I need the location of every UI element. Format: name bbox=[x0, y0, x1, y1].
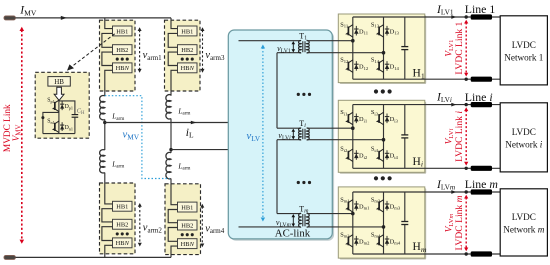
arm inductor L_arm lower-right bbox=[166, 152, 171, 178]
node LVDC link bottom junction row i bbox=[465, 167, 468, 170]
wire transformer secondary bottom to H1 bbox=[307, 52, 384, 54]
node LVDC link top junction row i bbox=[465, 103, 468, 106]
current arrow I_MV on top rail bbox=[61, 16, 67, 20]
wire right bridge leg of Hi bbox=[383, 105, 385, 169]
svg-text:LVDC: LVDC bbox=[512, 127, 536, 137]
wire primary bottom of Tm bbox=[239, 226, 301, 228]
svg-text:HBN: HBN bbox=[181, 65, 195, 72]
IGBT Si4 lower-right of Hi bbox=[379, 149, 383, 152]
node LVDC link bottom junction row m bbox=[465, 252, 468, 255]
arm module stack arm3 (dashed box) bbox=[165, 20, 201, 91]
voltage arrow v_LVi (small black) bbox=[292, 131, 294, 138]
submodule HB1 of arm4 bbox=[178, 202, 198, 212]
IGBT Si3 upper-right of Hi bbox=[379, 112, 383, 115]
ellipsis between Hi and Hm bbox=[374, 176, 378, 180]
svg-text:MVDC Link: MVDC Link bbox=[3, 104, 13, 152]
IGBT S11 upper-left of H1 bbox=[348, 25, 352, 28]
IGBT S14 lower-right of H1 bbox=[379, 60, 383, 63]
wire inset top node to capacitor bbox=[59, 101, 75, 115]
IGBT S_p1 in inset bbox=[55, 100, 59, 103]
svg-text:Dp1: Dp1 bbox=[65, 104, 73, 110]
current arrow I_LVi bbox=[451, 103, 456, 107]
svg-text:HBN: HBN bbox=[116, 240, 130, 247]
IGBT S12 lower-left of H1 bbox=[348, 60, 352, 63]
series chain wiring of arm2 bbox=[102, 173, 113, 258]
node LVDC link top junction row 1 bbox=[465, 15, 468, 18]
svg-text:HB2: HB2 bbox=[181, 222, 193, 229]
voltage arrow v_LV (blue dotted) bbox=[262, 48, 264, 219]
transformer T1 bbox=[299, 41, 302, 53]
IGBT Sm4 lower-right of Hm bbox=[379, 235, 383, 238]
wire i_L top (left node to AC-link bus) bbox=[105, 41, 239, 123]
voltage arrow v_arm1 (black dashed) bbox=[139, 30, 141, 70]
H-bridge module H1 box bbox=[340, 15, 427, 84]
submodule HBN of arm3 bbox=[178, 63, 198, 73]
current arrow I_LV1 bbox=[451, 15, 456, 19]
svg-text:HB: HB bbox=[54, 78, 64, 86]
wire transformer secondary top to Hi bbox=[307, 127, 353, 129]
current arrow i_L bbox=[191, 121, 197, 125]
wire top MV rail bbox=[15, 17, 171, 19]
expand block arrow in inset bbox=[54, 87, 64, 100]
measurement path v_MV (blue dotted) bbox=[105, 96, 170, 179]
wire bottom MV rail bbox=[15, 256, 171, 258]
svg-text:Network i: Network i bbox=[505, 139, 542, 149]
svg-text:HB1: HB1 bbox=[181, 28, 193, 35]
callout dashed arrow to HB detail inset bbox=[71, 34, 115, 68]
svg-text:HB1: HB1 bbox=[116, 28, 128, 35]
line impedance bottom of Line i bbox=[471, 166, 492, 171]
svg-text:LVDC: LVDC bbox=[512, 40, 536, 50]
ellipsis dots in arm3 bbox=[181, 58, 184, 61]
wire left bridge leg of H1 bbox=[352, 17, 354, 79]
ellipsis between T1 and Ti bbox=[297, 93, 300, 96]
line impedance top of Line i bbox=[471, 102, 492, 107]
ellipsis between H1 and Hi bbox=[374, 89, 378, 93]
H-bridge module Hi box bbox=[340, 102, 427, 174]
svg-text:Sp1: Sp1 bbox=[47, 98, 54, 104]
LVDC Link voltage arrow V_LVm (red dashed) bbox=[465, 198, 467, 249]
submodule HBN of arm4 bbox=[178, 239, 198, 249]
svg-text:HBN: HBN bbox=[181, 241, 195, 248]
wire transformer secondary bottom to Hi bbox=[307, 139, 384, 141]
ellipsis between Ti and Tm bbox=[297, 181, 300, 184]
svg-text:LVDC Link i: LVDC Link i bbox=[454, 111, 465, 162]
voltage arrow v_LVm (small black) bbox=[292, 216, 294, 224]
wire left bridge leg of Hi bbox=[352, 105, 354, 169]
line impedance top of Line m bbox=[471, 189, 492, 194]
wire transformer secondary bottom to Hm bbox=[307, 226, 384, 228]
svg-text:LVDC: LVDC bbox=[512, 212, 536, 222]
wire transformer secondary top to Hm bbox=[307, 213, 353, 215]
svg-text:Network 1: Network 1 bbox=[504, 52, 543, 62]
node LVDC link top junction row m bbox=[465, 190, 468, 193]
svg-text:Network m: Network m bbox=[503, 224, 544, 234]
wire primary bottom of T1 bbox=[277, 52, 301, 54]
IGBT Sm1 upper-left of Hm bbox=[348, 200, 352, 203]
svg-text:HB2: HB2 bbox=[116, 222, 128, 229]
voltage arrow v_arm2 (black dashed) bbox=[139, 206, 141, 244]
svg-text:HB2: HB2 bbox=[116, 47, 128, 54]
svg-text:Line 1: Line 1 bbox=[465, 2, 496, 16]
IGBT Si2 lower-left of Hi bbox=[348, 149, 352, 152]
wire right bridge leg of Hm bbox=[383, 192, 385, 254]
ellipsis dots in arm2 bbox=[116, 232, 119, 235]
svg-text:HB1: HB1 bbox=[116, 204, 128, 211]
capacitor C_H in inset bbox=[72, 114, 79, 116]
arm module stack arm2 (dashed box) bbox=[100, 183, 136, 254]
LVDC Network i box bbox=[500, 103, 547, 172]
arm inductor L_arm lower-left bbox=[100, 150, 105, 173]
MVDC positive terminal bbox=[4, 16, 15, 20]
wire primary top of Tm bbox=[277, 213, 301, 215]
svg-text:Line m: Line m bbox=[465, 177, 499, 191]
node left midpoint junction bbox=[103, 121, 106, 124]
voltage arrow v_LV1 (small black) bbox=[292, 43, 294, 50]
line impedance bottom of Line 1 bbox=[471, 77, 492, 82]
wire primary bottom of Ti bbox=[277, 139, 301, 141]
submodule HB1 of arm3 bbox=[178, 26, 198, 36]
voltage arrow v_arm3 (black dashed) bbox=[202, 30, 204, 70]
submodule HBN of arm1 bbox=[113, 63, 133, 73]
wire inset bottom rail bbox=[43, 133, 75, 135]
wire right leg mid segment bbox=[170, 119, 172, 153]
arm inductor L_arm upper-right bbox=[166, 95, 171, 119]
MVDC Link voltage arrow V_MV (red dashed) bbox=[21, 30, 23, 241]
wire DC- output of Hm bbox=[353, 253, 500, 255]
node right midpoint junction bbox=[169, 148, 172, 151]
arm module stack arm1 (dashed box) bbox=[100, 20, 136, 91]
current arrow I_LVm bbox=[451, 190, 456, 194]
wire inset midpoint output bbox=[43, 112, 59, 133]
HB block in inset bbox=[48, 77, 70, 87]
HB submodule detail inset (dashed box) bbox=[35, 72, 89, 138]
series chain wiring of arm3 bbox=[168, 18, 177, 96]
line impedance top of Line 1 bbox=[471, 14, 492, 19]
voltage arrow v_arm4 (black dashed) bbox=[201, 207, 203, 245]
IGBT Si1 upper-left of Hi bbox=[348, 112, 352, 115]
svg-text:AC-link: AC-link bbox=[275, 228, 311, 240]
wire primary top of T1 bbox=[239, 40, 301, 42]
wire return (right node to AC-link bus) bbox=[171, 150, 239, 227]
LVDC Network m box bbox=[500, 189, 547, 256]
AC-link box (cyan) bbox=[230, 32, 334, 241]
submodule HB2 of arm4 bbox=[178, 220, 198, 230]
wire DC- output of H1 bbox=[353, 78, 500, 80]
IGBT S_n1 in inset bbox=[55, 121, 59, 124]
svg-text:HB1: HB1 bbox=[181, 204, 193, 211]
wire right bridge leg of H1 bbox=[383, 17, 385, 79]
submodule HBN of arm2 bbox=[113, 238, 133, 248]
svg-text:HBN: HBN bbox=[116, 65, 130, 72]
IGBT S13 upper-right of H1 bbox=[379, 25, 383, 28]
submodule HB1 of arm2 bbox=[113, 201, 133, 211]
svg-text:HB2: HB2 bbox=[181, 47, 193, 54]
line impedance bottom of Line m bbox=[471, 251, 492, 256]
svg-text:Dn1: Dn1 bbox=[65, 125, 73, 131]
capacitor C of Hm bbox=[404, 192, 406, 222]
wire transformer secondary top to H1 bbox=[307, 40, 353, 42]
wire DC+ output of H1 bbox=[353, 16, 500, 18]
IGBT Sm3 upper-right of Hm bbox=[379, 200, 383, 203]
wire DC- output of Hi bbox=[353, 167, 500, 169]
svg-text:Sn1: Sn1 bbox=[47, 119, 54, 125]
MVDC negative terminal bbox=[4, 255, 15, 259]
svg-text:Line i: Line i bbox=[465, 90, 493, 104]
node inset output junction bbox=[41, 116, 44, 119]
submodule HB2 of arm2 bbox=[113, 219, 133, 229]
IGBT Sm2 lower-left of Hm bbox=[348, 235, 352, 238]
arm inductor L_arm upper-left bbox=[100, 96, 105, 120]
ellipsis dots in arm1 bbox=[116, 58, 119, 61]
arm module stack arm4 (dashed box) bbox=[165, 184, 201, 255]
LVDC Link voltage arrow V_LVi (red dashed) bbox=[465, 110, 467, 163]
submodule HB1 of arm1 bbox=[113, 26, 133, 36]
wire DC+ output of Hi bbox=[353, 104, 500, 106]
capacitor C of H1 bbox=[404, 17, 406, 47]
H-bridge module Hm box bbox=[340, 188, 427, 259]
wire left leg mid segment bbox=[104, 119, 106, 150]
LVDC Network 1 box bbox=[500, 16, 547, 85]
transformer Tm bbox=[299, 213, 301, 227]
svg-text:LVDC Link 1: LVDC Link 1 bbox=[454, 21, 465, 74]
svg-text:LVDC Link m: LVDC Link m bbox=[454, 195, 465, 250]
series bus segment T1-Ti (primary chain) bbox=[276, 53, 278, 129]
submodule HB2 of arm1 bbox=[113, 45, 133, 55]
submodule HB2 of arm3 bbox=[178, 45, 198, 55]
series bus segment Ti-Tm (primary chain) bbox=[276, 140, 278, 214]
node LVDC link bottom junction row 1 bbox=[465, 78, 468, 81]
series chain wiring of arm1 bbox=[102, 18, 113, 96]
LVDC Link voltage arrow V_LV1 (red dashed) bbox=[465, 23, 467, 74]
wire inset half-bridge leg bbox=[58, 100, 60, 133]
transformer Ti bbox=[299, 128, 302, 140]
wire primary top of Ti bbox=[277, 127, 301, 129]
series chain wiring of arm4 bbox=[168, 179, 177, 258]
wire left bridge leg of Hm bbox=[352, 192, 354, 254]
wire DC+ output of Hm bbox=[353, 191, 500, 193]
capacitor C of Hi bbox=[404, 105, 406, 135]
ellipsis dots in arm4 bbox=[181, 233, 184, 236]
